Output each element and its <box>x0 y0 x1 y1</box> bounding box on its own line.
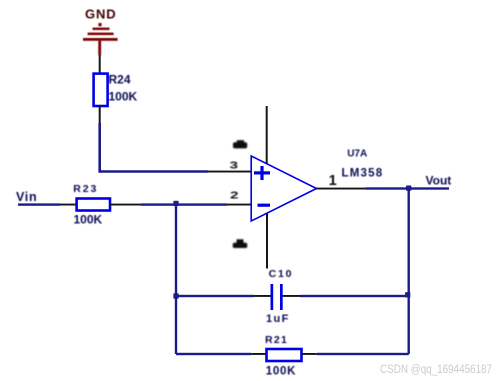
svg-text:R21: R21 <box>265 334 288 346</box>
wire (R21 left pin stub) <box>251 353 266 355</box>
wire (bottom row right) <box>317 353 409 355</box>
node junction at output <box>406 186 411 191</box>
ground symbol <box>83 23 118 55</box>
wire (output pin 1 stub) <box>317 188 367 190</box>
svg-text:LM358: LM358 <box>342 167 384 179</box>
svg-text:3: 3 <box>230 159 238 171</box>
wire (Vin lead) <box>18 203 60 205</box>
wire (ground to R4) <box>99 55 101 74</box>
wire (to non-inverting input, blue elbow) <box>100 123 208 172</box>
svg-text:GND: GND <box>85 7 117 22</box>
op-amp minus input marker <box>258 204 271 207</box>
wire (bottom row left) <box>176 353 251 355</box>
op-amp plus input marker <box>254 166 270 180</box>
wire (C10 left pin stub) <box>254 295 271 297</box>
wire (feedback left vertical) <box>175 205 177 354</box>
wire (pin 2 stub) <box>227 204 251 206</box>
wire (R4 bottom pin, black stub) <box>99 106 101 123</box>
wire (to inverting input) <box>141 203 227 205</box>
svg-text:R23: R23 <box>73 183 98 195</box>
svg-text:2: 2 <box>230 189 238 201</box>
pin number 4 <box>233 239 247 248</box>
pin number 8 <box>233 140 247 148</box>
wire (R21 right pin stub) <box>302 353 317 355</box>
svg-text:Vout: Vout <box>426 173 452 187</box>
op-amp U7A triangle <box>251 156 316 221</box>
wire (V+ power pin 8) <box>266 106 268 164</box>
svg-text:Vin: Vin <box>16 190 37 204</box>
node junction cap row right <box>405 292 410 297</box>
node junction on Vin wire <box>173 201 178 206</box>
wire (feedback right vertical) <box>408 189 410 354</box>
resistor R23 <box>77 199 110 211</box>
capacitor C10 <box>271 284 283 310</box>
svg-text:R24: R24 <box>109 73 131 87</box>
wire (output to Vout) <box>366 187 449 189</box>
wire (cap row right) <box>300 295 409 297</box>
svg-text:C10: C10 <box>269 268 294 280</box>
wire (R23 left pin stub) <box>60 204 77 206</box>
svg-text:100K: 100K <box>266 365 296 377</box>
resistor R21 <box>267 349 302 361</box>
resistor R24 <box>94 74 108 106</box>
svg-text:CSDN @qq_1694456187: CSDN @qq_1694456187 <box>380 362 492 376</box>
wire (cap row left) <box>176 295 254 297</box>
svg-text:100K: 100K <box>109 90 138 104</box>
svg-text:U7A: U7A <box>347 149 367 160</box>
node junction cap row left <box>173 293 178 298</box>
wire (pin 3 stub) <box>208 171 251 173</box>
wire (R23 right pin stub) <box>110 204 141 206</box>
svg-text:1: 1 <box>329 173 337 189</box>
wire (C10 right pin stub) <box>283 295 300 297</box>
svg-text:1uF: 1uF <box>266 313 290 325</box>
wire (V- power pin 4) <box>266 214 268 269</box>
svg-text:100K: 100K <box>74 213 103 227</box>
